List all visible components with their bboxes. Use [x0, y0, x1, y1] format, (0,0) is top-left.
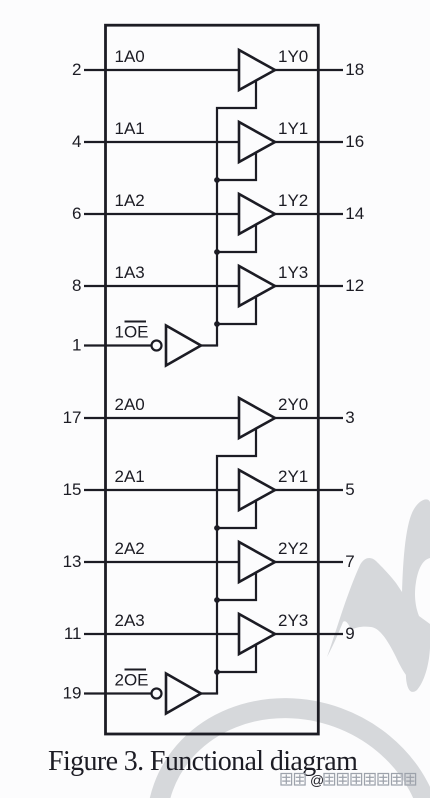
svg-text:1OE: 1OE: [115, 323, 149, 342]
wire 1Y1 output: [274, 141, 343, 143]
wire 1A0 input: [84, 69, 239, 71]
svg-text:12: 12: [345, 276, 364, 295]
buffer U8: [239, 542, 275, 582]
svg-text:2Y0: 2Y0: [278, 395, 308, 414]
wire 1A3 input: [84, 285, 239, 287]
wire 2Y0 output: [274, 417, 343, 419]
svg-text:3: 3: [345, 408, 354, 427]
wire 2A3 input: [84, 633, 239, 635]
svg-text:1: 1: [72, 336, 81, 355]
svg-text:1A2: 1A2: [115, 191, 145, 210]
svg-text:1Y0: 1Y0: [278, 47, 308, 66]
wire 1Y0 output: [274, 69, 343, 71]
enable tap U3: [217, 225, 256, 252]
svg-text:1A1: 1A1: [115, 119, 145, 138]
wire 2A2 input: [84, 561, 239, 563]
watermark swoosh band: [327, 558, 417, 681]
buffer U7: [239, 470, 275, 510]
enable bus group 2: [217, 429, 256, 694]
svg-text:2A2: 2A2: [115, 539, 145, 558]
inverter U5: [166, 326, 201, 366]
wire 2Y3 output: [274, 633, 343, 635]
svg-text:15: 15: [63, 480, 82, 499]
inverter U10: [166, 674, 201, 714]
wire 2Y2 output: [274, 561, 343, 563]
enable bus group 1: [217, 81, 256, 346]
buffer U3: [239, 194, 275, 234]
buffer U1: [239, 50, 275, 90]
inverter bubble U10: [152, 689, 162, 699]
buffer U4: [239, 266, 275, 306]
junction dot 3: [214, 321, 220, 327]
enable tap U8: [217, 573, 256, 600]
enable tap U2: [217, 153, 256, 180]
svg-text:2: 2: [72, 60, 81, 79]
inverter bubble U5: [152, 341, 162, 351]
wire 2Y1 output: [274, 489, 343, 491]
IC outline: [106, 25, 319, 734]
svg-text:13: 13: [63, 552, 82, 571]
enable tap U7: [217, 501, 256, 528]
svg-text:18: 18: [345, 60, 364, 79]
buffer U9: [239, 614, 275, 654]
svg-text:2Y2: 2Y2: [278, 539, 308, 558]
buffer U2: [239, 122, 275, 162]
wire 2OE input: [84, 692, 152, 694]
svg-text:1Y2: 1Y2: [278, 191, 308, 210]
wire 1Y3 output: [274, 285, 343, 287]
svg-text:2OE: 2OE: [115, 671, 149, 690]
svg-text:4: 4: [72, 132, 81, 151]
svg-text:1A0: 1A0: [115, 47, 145, 66]
overline 1OE: [125, 321, 147, 323]
svg-text:11: 11: [64, 624, 82, 643]
wire 2OE output: [201, 692, 218, 694]
wire 1A2 input: [84, 213, 239, 215]
junction dot 2: [214, 249, 220, 255]
svg-text:@: @: [310, 772, 324, 788]
svg-text:9: 9: [345, 624, 354, 643]
svg-text:1A3: 1A3: [115, 263, 145, 282]
wire 1A1 input: [84, 141, 239, 143]
svg-text:2Y3: 2Y3: [278, 611, 308, 630]
buffer U6: [239, 398, 275, 438]
watermark credit text: [281, 774, 416, 786]
wire 2A1 input: [84, 489, 239, 491]
svg-text:6: 6: [72, 204, 81, 223]
junction dot 5: [214, 597, 220, 603]
svg-text:2Y1: 2Y1: [278, 467, 308, 486]
svg-text:2A3: 2A3: [115, 611, 145, 630]
wire 1OE output: [201, 344, 218, 346]
svg-text:14: 14: [345, 204, 364, 223]
watermark arch hook: [402, 499, 430, 692]
junction dot 6: [214, 669, 220, 675]
junction dot 1: [214, 177, 220, 183]
svg-text:16: 16: [345, 132, 364, 151]
junction dot 4: [214, 525, 220, 531]
overline 2OE: [125, 669, 147, 671]
svg-text:5: 5: [345, 480, 354, 499]
svg-text:7: 7: [345, 552, 354, 571]
svg-text:17: 17: [63, 408, 82, 427]
wire 1Y2 output: [274, 213, 343, 215]
enable tap U9: [217, 645, 256, 672]
svg-text:8: 8: [72, 276, 81, 295]
svg-text:2A0: 2A0: [115, 395, 145, 414]
svg-text:2A1: 2A1: [115, 467, 145, 486]
wire 2A0 input: [84, 417, 239, 419]
svg-text:1Y1: 1Y1: [278, 119, 308, 138]
svg-text:19: 19: [63, 684, 82, 703]
watermark ring: [121, 670, 430, 798]
enable tap U4: [217, 297, 256, 324]
wire 1OE input: [84, 344, 152, 346]
svg-text:1Y3: 1Y3: [278, 263, 308, 282]
